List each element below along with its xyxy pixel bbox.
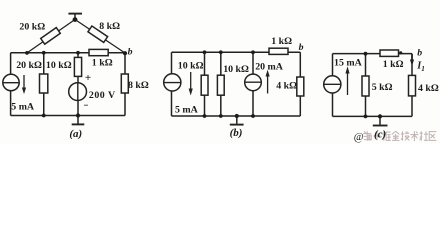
svg-text:5 kΩ: 5 kΩ (372, 82, 393, 93)
svg-text:I1: I1 (416, 60, 425, 72)
svg-text:10 kΩ: 10 kΩ (223, 64, 249, 75)
svg-text:1 kΩ: 1 kΩ (383, 59, 404, 70)
svg-text:(a): (a) (69, 128, 82, 140)
svg-text:5 mA: 5 mA (175, 104, 199, 115)
svg-text:5 mA: 5 mA (11, 102, 35, 113)
svg-text:@: @ (354, 131, 364, 143)
svg-text:1 kΩ: 1 kΩ (271, 36, 292, 47)
svg-text:20 mA: 20 mA (255, 61, 284, 72)
svg-text:8 kΩ: 8 kΩ (128, 80, 149, 91)
svg-text:8 kΩ: 8 kΩ (99, 21, 120, 32)
svg-text:15 mA: 15 mA (334, 58, 363, 69)
svg-text:1 kΩ: 1 kΩ (92, 58, 113, 69)
svg-text:10 kΩ: 10 kΩ (178, 61, 204, 72)
svg-text:(c): (c) (374, 128, 386, 140)
svg-text:20 kΩ: 20 kΩ (16, 60, 42, 71)
svg-text:200 V: 200 V (89, 90, 116, 101)
svg-text:b: b (299, 42, 304, 53)
svg-text:4 kΩ: 4 kΩ (418, 83, 439, 94)
svg-text:b: b (417, 47, 422, 58)
svg-text:20 kΩ: 20 kΩ (19, 22, 45, 33)
svg-text:b: b (128, 47, 133, 58)
svg-text:+: + (85, 72, 91, 84)
svg-text:10 kΩ: 10 kΩ (46, 60, 72, 71)
svg-text:4 kΩ: 4 kΩ (276, 81, 297, 92)
svg-text:(b): (b) (230, 127, 243, 139)
